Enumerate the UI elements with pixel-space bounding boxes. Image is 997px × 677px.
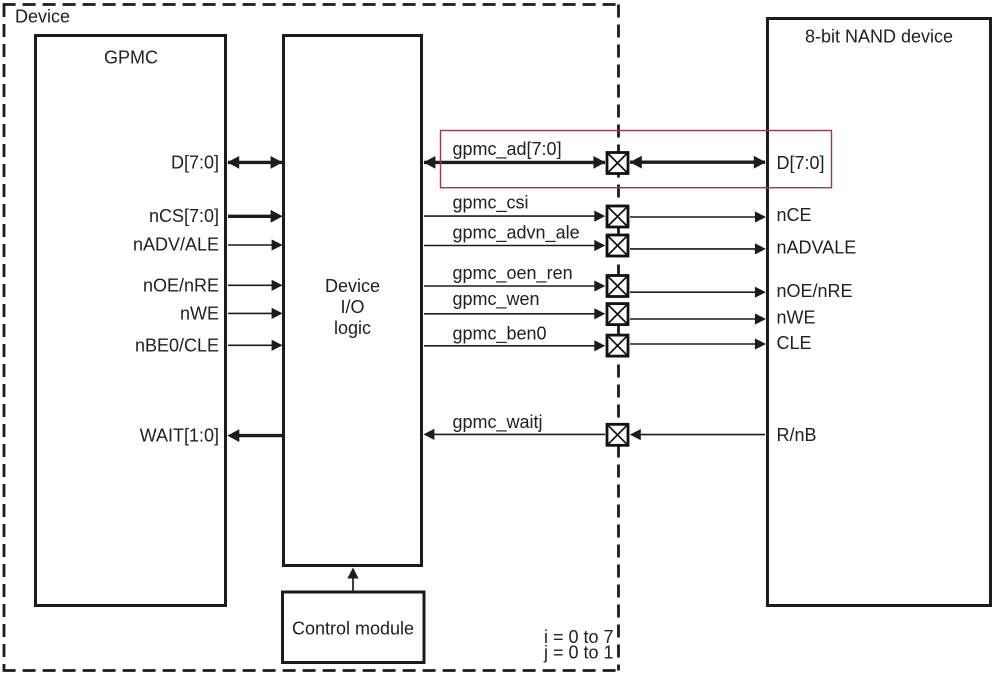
wire ben0 pad to NAND [630,338,766,349]
Device I/O logic block [284,36,422,566]
svg-text:gpmc_waitj: gpmc_waitj [453,412,543,433]
svg-text:nWE: nWE [777,308,816,328]
svg-text:D[7:0]: D[7:0] [777,153,825,173]
wire nADV GPMC to I/O logic [228,239,283,250]
pad X waitj [607,424,628,445]
svg-text:D[7:0]: D[7:0] [171,153,219,173]
pad X oen [607,276,628,297]
pad X csi [607,206,628,227]
wire D bus GPMC to I/O logic [227,156,282,169]
svg-text:nBE0/CLE: nBE0/CLE [135,336,219,356]
svg-text:8-bit NAND device: 8-bit NAND device [805,27,953,47]
svg-text:j = 0 to 1: j = 0 to 1 [543,643,614,663]
wire gpmc_oen_ren I/O logic to pad [424,280,605,291]
svg-text:nCE: nCE [777,205,812,225]
Control module block [283,592,425,663]
svg-text:gpmc_ad[7:0]: gpmc_ad[7:0] [453,139,562,160]
wire nWE GPMC to I/O logic [228,308,283,319]
wire gpmc_ben0 I/O logic to pad [424,340,605,351]
pad X advn [607,235,628,256]
wire gpmc_csi I/O logic to pad [424,211,605,222]
svg-text:Control module: Control module [292,619,414,639]
wire nOE GPMC to I/O logic [228,280,283,291]
note i = 0 to 7, j = 0 to 1 [543,627,614,663]
svg-text:gpmc_oen_ren: gpmc_oen_ren [453,263,573,284]
wire gpmc_ad I/O logic to pad [423,156,605,169]
wire nCS GPMC to I/O logic [228,210,283,223]
wire wen pad to NAND [630,313,766,324]
wire WAIT I/O logic to GPMC [227,429,282,442]
svg-text:Device: Device [15,7,70,27]
svg-text:nADVALE: nADVALE [777,238,857,258]
pad X wen [607,304,628,325]
pad X ad [607,153,628,174]
svg-text:WAIT[1:0]: WAIT[1:0] [140,426,219,446]
wire gpmc_wen I/O logic to pad [424,308,605,319]
svg-text:I/O: I/O [340,297,364,317]
svg-text:nOE/nRE: nOE/nRE [143,275,219,295]
highlight box (red) around gpmc_ad row [441,131,832,188]
wire gpmc_waitj pad to I/O logic [423,429,605,440]
device boundary (dashed) [3,4,619,671]
svg-text:gpmc_advn_ale: gpmc_advn_ale [453,223,580,244]
svg-text:gpmc_wen: gpmc_wen [453,289,540,310]
svg-text:gpmc_csi: gpmc_csi [453,193,529,214]
svg-text:nCS[7:0]: nCS[7:0] [149,206,219,226]
wire gpmc_advn_ale I/O logic to pad [424,240,605,251]
wire csi pad to NAND [630,211,766,222]
8-bit NAND device block [768,19,991,606]
svg-text:nWE: nWE [180,303,219,323]
svg-text:logic: logic [334,318,371,338]
GPMC block [36,36,226,606]
wire waitj NAND to pad [630,429,765,440]
label Device I/O logic [325,276,380,338]
wire nBE0 GPMC to I/O logic [228,340,283,351]
wire control module to I/O logic [347,568,358,593]
svg-text:CLE: CLE [777,333,812,353]
svg-text:GPMC: GPMC [104,48,158,68]
wire ad pad to NAND [630,156,766,169]
pad X ben0 [607,335,628,356]
svg-text:nADV/ALE: nADV/ALE [133,235,219,255]
svg-text:nOE/nRE: nOE/nRE [777,281,853,301]
wire advn pad to NAND [630,243,766,254]
wire oen pad to NAND [630,287,766,298]
svg-text:R/nB: R/nB [777,425,817,445]
svg-text:Device: Device [325,276,380,296]
svg-text:gpmc_ben0: gpmc_ben0 [453,324,547,345]
